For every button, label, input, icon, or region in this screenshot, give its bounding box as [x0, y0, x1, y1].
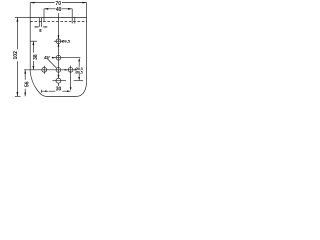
- svg-text:40: 40: [56, 7, 62, 13]
- hole ML: [42, 67, 47, 72]
- svg-text:30: 30: [56, 87, 62, 93]
- dim 70 line: [30, 2, 86, 4]
- arrow MR left: [65, 69, 69, 71]
- dim 70 ext left: [29, 3, 31, 18]
- dim 40 ext right: [71, 9, 73, 18]
- svg-text:56: 56: [24, 81, 30, 87]
- arrow 102 bottom: [17, 92, 19, 96]
- dim 30 tick left: [40, 90, 42, 93]
- dim 38 line: [32, 41, 34, 70]
- slot left edge: [38, 18, 40, 27]
- hole B: [56, 78, 61, 83]
- arrow dimR bottom: [78, 77, 80, 81]
- arrow 70 right: [82, 2, 86, 4]
- hole T: [56, 39, 61, 44]
- dim 30 line: [41, 90, 70, 92]
- svg-text:45°: 45°: [44, 55, 51, 60]
- svg-text:8: 8: [39, 28, 42, 33]
- hole M1: [56, 55, 61, 60]
- dim right line: [78, 62, 80, 78]
- dim 40 ext left: [43, 9, 45, 22]
- dashed fold line: [30, 20, 86, 22]
- ext hole1 row right: [64, 57, 80, 59]
- arrow M1 left: [52, 57, 56, 59]
- part outline: [30, 18, 86, 97]
- hole ML crosshair: [43, 66, 45, 74]
- centerline: [57, 13, 59, 86]
- svg-text:102: 102: [13, 51, 19, 60]
- hole B crosshair: [53, 80, 67, 82]
- arrow 102 top: [17, 18, 19, 22]
- svg-text:70: 70: [56, 1, 62, 7]
- arrow 30 left: [45, 90, 49, 92]
- arrow 38 bottom: [33, 66, 35, 70]
- svg-text:Ø6,5: Ø6,5: [75, 71, 82, 75]
- ext hole B row right: [74, 80, 84, 82]
- dim 40 line: [44, 8, 72, 10]
- arrow slot right: [43, 26, 46, 27]
- arrow 56 top: [24, 70, 26, 74]
- arrow 38 top: [33, 41, 35, 45]
- hole MR vertical: [70, 66, 72, 88]
- dim 56 line: [24, 70, 26, 97]
- arrow holeT bottom: [58, 44, 60, 47]
- arrow 40 left: [44, 8, 48, 10]
- arrow 30 right: [67, 90, 71, 92]
- slot dim line right: [43, 26, 48, 28]
- arrow holeT top: [58, 35, 60, 39]
- arrow 56 bottom: [24, 93, 26, 97]
- hole MR: [68, 67, 73, 72]
- dim 70 ext right: [86, 3, 88, 18]
- svg-text:38: 38: [33, 54, 39, 60]
- ext hole row top: [30, 40, 37, 42]
- arrow MR down: [70, 87, 72, 90]
- tick right slot b: [74, 17, 76, 24]
- tick right slot a: [71, 18, 73, 24]
- arrow 40 right: [68, 8, 72, 10]
- diagonal 45: [47, 58, 57, 68]
- ext mid row: [24, 69, 75, 71]
- hole T crosshair: [54, 40, 64, 42]
- slot right edge: [41, 18, 43, 27]
- ext top-left: [15, 17, 30, 19]
- arrow 70 left: [30, 2, 34, 4]
- arrow holeB top: [58, 75, 60, 78]
- arrow MR right: [73, 69, 76, 71]
- dim 102 line: [16, 18, 18, 97]
- arrow dimR top: [78, 58, 80, 62]
- ext bottom-left: [15, 95, 21, 97]
- hole MC: [56, 68, 61, 73]
- slot dim line left: [34, 26, 39, 28]
- hole M1 crosshair: [52, 57, 64, 59]
- arrow slot left: [35, 26, 38, 27]
- svg-text:Ø6,5: Ø6,5: [62, 39, 71, 44]
